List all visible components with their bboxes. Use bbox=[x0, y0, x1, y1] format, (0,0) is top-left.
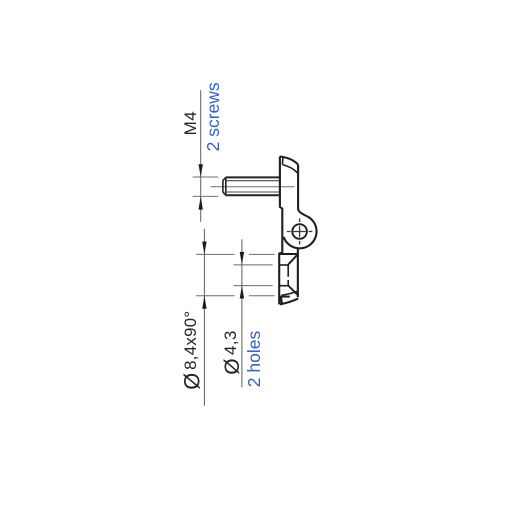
svg-text:M4: M4 bbox=[181, 111, 200, 136]
svg-text:2 holes: 2 holes bbox=[244, 331, 264, 388]
svg-text:2 screws: 2 screws bbox=[203, 82, 223, 151]
